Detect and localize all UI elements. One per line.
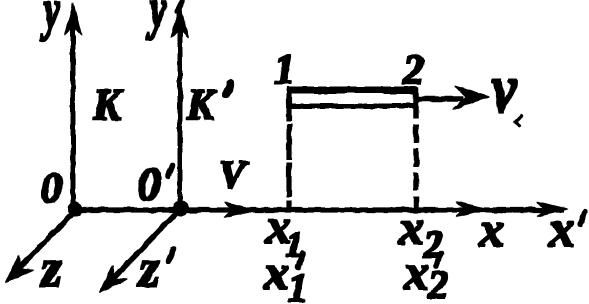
svg-text:z: z	[137, 238, 160, 298]
svg-text:K: K	[92, 79, 124, 130]
svg-text:z: z	[39, 238, 62, 298]
svg-text:x: x	[548, 201, 575, 258]
svg-text:y: y	[146, 0, 166, 41]
z axis of frame K	[16, 210, 76, 271]
v arrowhead	[452, 86, 489, 110]
svg-text:1: 1	[288, 265, 308, 304]
origin dot O	[68, 202, 82, 216]
label x' prime	[580, 212, 585, 224]
z' axis of frame K'	[110, 208, 181, 282]
y' axis of frame K'	[178, 30, 182, 208]
svg-text:1: 1	[274, 47, 295, 93]
y axis of frame K	[71, 26, 75, 210]
svg-text:0: 0	[41, 166, 62, 212]
svg-text:2: 2	[402, 48, 424, 94]
x axis arrowhead near x label	[456, 202, 487, 217]
x axis mid arrowhead (V arrow)	[224, 203, 255, 218]
rod right end / dashed drop line at x2	[414, 88, 419, 210]
svg-text:K: K	[186, 80, 217, 129]
label x1' prime	[298, 254, 303, 267]
rod bottom edge	[288, 104, 416, 108]
y' axis arrowhead	[172, 6, 189, 38]
svg-text:x: x	[263, 244, 289, 300]
svg-text:0: 0	[137, 158, 161, 211]
label y' prime	[177, 1, 182, 11]
label z' prime	[169, 249, 174, 261]
label x2' prime	[436, 253, 441, 266]
origin dot O'	[174, 201, 188, 215]
v arrow line	[417, 97, 462, 102]
svg-text:x: x	[403, 244, 429, 300]
rod top edge	[287, 87, 417, 93]
y axis arrowhead	[65, 3, 82, 35]
svg-text:x: x	[478, 201, 504, 257]
z' axis arrowhead	[100, 265, 128, 292]
small angle mark under v	[515, 115, 522, 126]
z axis arrowhead	[6, 255, 34, 282]
svg-text:V: V	[219, 152, 249, 197]
label O' prime	[168, 166, 172, 176]
svg-text:v: v	[492, 49, 517, 127]
svg-text:y: y	[40, 0, 60, 42]
rod left end / dashed drop line at x1	[287, 87, 291, 210]
x axis common	[76, 208, 564, 212]
svg-text:2: 2	[427, 262, 448, 304]
x axis end arrowhead	[537, 202, 568, 217]
label K' prime	[226, 83, 230, 94]
